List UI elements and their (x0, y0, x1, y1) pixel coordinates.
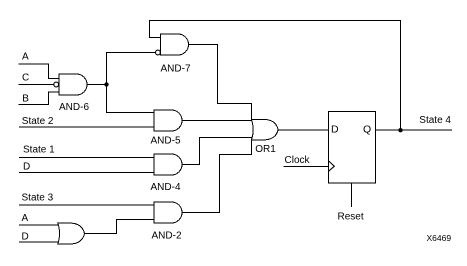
svg-text:A: A (22, 213, 29, 224)
svg-text:AND-2: AND-2 (152, 231, 182, 242)
svg-text:AND-5: AND-5 (151, 136, 181, 147)
svg-text:AND-6: AND-6 (59, 102, 89, 113)
svg-text:A: A (22, 52, 29, 63)
svg-text:Q: Q (363, 124, 371, 136)
svg-text:X6469: X6469 (427, 233, 452, 243)
svg-text:D: D (22, 231, 29, 242)
svg-text:State 4: State 4 (419, 115, 451, 126)
svg-text:D: D (331, 124, 339, 136)
svg-text:AND-4: AND-4 (151, 182, 181, 193)
svg-text:D: D (23, 162, 30, 173)
svg-text:State 1: State 1 (23, 145, 55, 156)
svg-text:State 2: State 2 (22, 116, 54, 127)
svg-text:Reset: Reset (338, 212, 364, 223)
svg-text:AND-7: AND-7 (161, 64, 191, 75)
svg-text:C: C (22, 73, 29, 84)
svg-text:State 3: State 3 (22, 193, 54, 204)
svg-text:B: B (22, 94, 29, 105)
svg-text:OR1: OR1 (255, 144, 276, 155)
svg-text:Clock: Clock (285, 155, 311, 166)
